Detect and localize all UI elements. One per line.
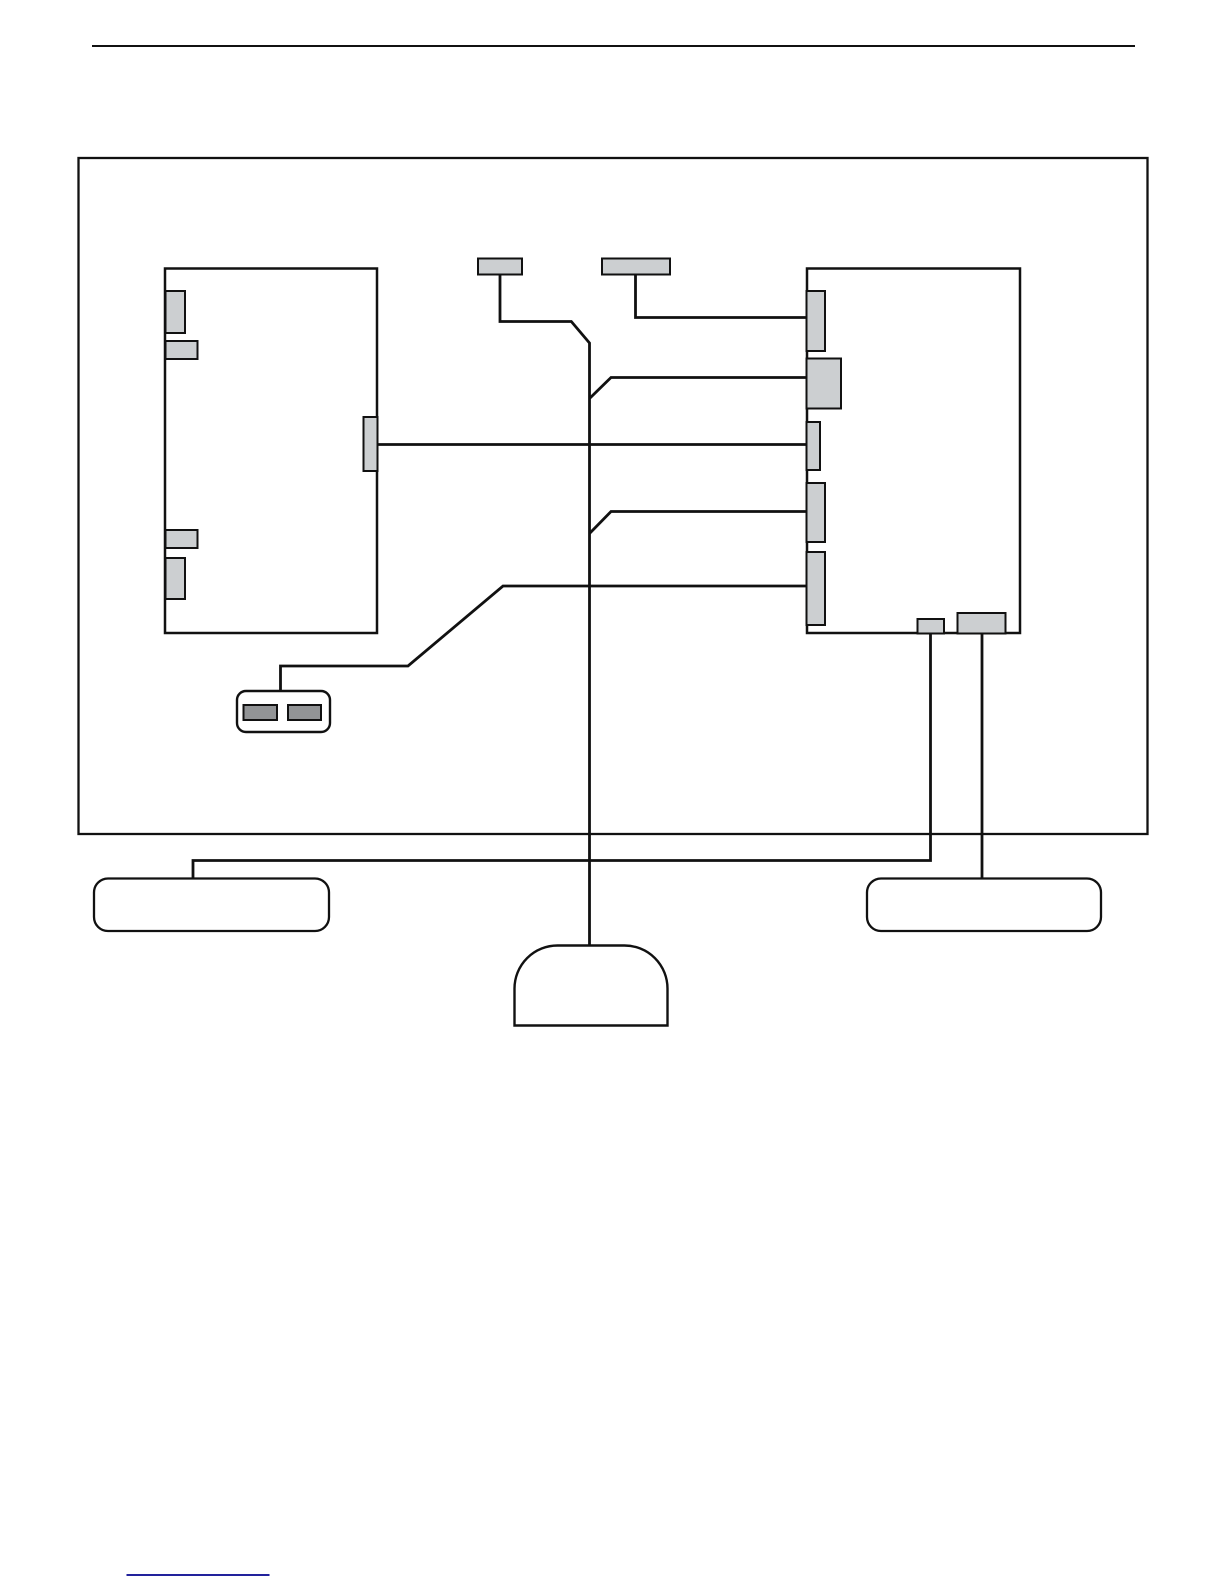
connector L2 (left module upper horizontal): [166, 341, 198, 359]
wire: right module bottom connector RB2 to right callout: [981, 634, 984, 879]
header rule: [92, 45, 1135, 47]
connector RB1 (right module bottom, small): [918, 619, 945, 634]
connector R2 (right module, second): [807, 359, 842, 409]
right module (control unit B): [807, 269, 1020, 634]
connector T1 (top harness tab): [478, 259, 522, 275]
callout box right: [867, 879, 1101, 932]
wire: harness lead from top connector T1 into main trunk: [500, 275, 590, 945]
grommet dome: [515, 946, 668, 1026]
wire: right module bottom connector RB1 to left callout: [193, 634, 931, 879]
wire: branch from trunk to right module connector R2: [590, 378, 808, 399]
connector R5 (right module, fifth): [807, 552, 826, 625]
outer enclosure (vehicle body outline): [79, 158, 1148, 834]
connector T2 (top harness tab): [602, 259, 670, 275]
left module (control unit A): [165, 269, 377, 634]
wire: lead from top connector T2 to right module connector R1: [636, 275, 808, 318]
callout box left: [94, 879, 329, 932]
footer link underline: [127, 1574, 270, 1576]
pigtail connector P1 (2-pin): [237, 691, 330, 732]
connector R3 (right module, third): [807, 422, 821, 470]
wire: left module connector L3 to right module connector R3: [378, 443, 808, 446]
connector L5 (left module lower vertical): [166, 558, 186, 599]
connector R1 (right module, top): [807, 291, 826, 351]
wire: right module connector R5 to pigtail connector P1: [281, 586, 808, 691]
wire: branch from trunk to right module connector R4: [590, 512, 808, 534]
connector R4 (right module, fourth): [807, 483, 826, 542]
connector L4 (left module lower horizontal): [166, 530, 198, 548]
connector L3 (left module right edge): [364, 417, 378, 471]
connector RB2 (right module bottom, large): [958, 613, 1006, 634]
pin 1 of P1: [244, 705, 278, 720]
pin 2 of P1: [288, 705, 321, 720]
connector L1 (left module upper vertical): [166, 291, 186, 333]
